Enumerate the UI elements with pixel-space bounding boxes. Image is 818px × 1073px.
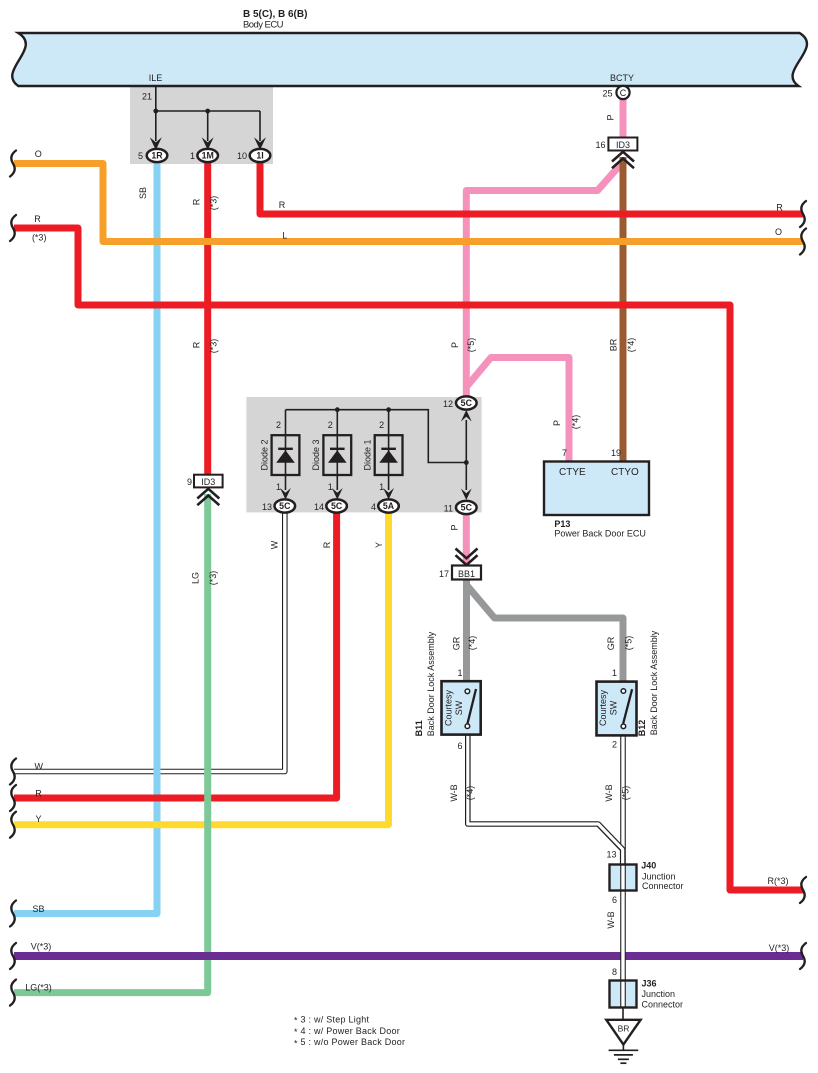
courtesy switch B11 box [442, 681, 481, 734]
label LG3 left [25, 983, 52, 993]
svg-text:ID3: ID3 [201, 477, 215, 487]
label pin 12 [443, 399, 453, 409]
svg-text:9: 9 [187, 477, 192, 487]
svg-text:Diode 1: Diode 1 [363, 439, 373, 470]
svg-text:Connector: Connector [642, 881, 684, 891]
svg-text:2: 2 [379, 420, 384, 430]
svg-text:(*4): (*4) [571, 415, 581, 430]
svg-text:* 3 : w/ Step Light: * 3 : w/ Step Light [294, 1015, 370, 1026]
J40 junction connector border [610, 865, 637, 891]
svg-text:B11: B11 [414, 720, 424, 736]
label SB left [32, 904, 44, 914]
label R rotated low [322, 541, 332, 548]
label net BCTY [610, 73, 634, 83]
break squiggle right V [800, 943, 806, 969]
label pin 17 [439, 569, 449, 579]
svg-text:2: 2 [612, 740, 617, 750]
label O left [35, 149, 42, 159]
svg-text:2: 2 [276, 420, 281, 430]
svg-text:1: 1 [612, 668, 617, 678]
svg-text:1: 1 [379, 482, 384, 492]
label pin 19 [611, 448, 621, 458]
label pin 7 [562, 448, 567, 458]
Body ECU connector band B5(C) B6(B) [12, 33, 807, 86]
svg-text:Courtesy: Courtesy [444, 689, 454, 726]
wire Y from diode pin 4 to left edge [14, 512, 389, 825]
connector box 17 BB1 [452, 566, 481, 580]
svg-text:P: P [606, 114, 616, 120]
break squiggle left W [10, 759, 16, 785]
node dot diode1 top [386, 407, 391, 412]
wire P branch to P13 CTYE pin 7 [466, 358, 569, 464]
svg-text:SB: SB [32, 904, 44, 914]
svg-text:P: P [552, 420, 562, 426]
break squiggle left SB [10, 901, 16, 927]
svg-text:SW: SW [609, 700, 619, 715]
svg-text:CTYE: CTYE [559, 467, 586, 478]
break squiggle left O [10, 151, 16, 177]
svg-text:(*4): (*4) [467, 636, 477, 651]
label Diode 2 [259, 439, 269, 470]
label R 1M upper [191, 196, 218, 211]
wire SB from 1R down and to left edge [14, 160, 157, 914]
courtesy switch B12 box [597, 682, 637, 736]
label pin 1 B11 [457, 668, 462, 678]
junction block top gray [130, 87, 273, 164]
connector box 16 ID3 [608, 138, 637, 151]
svg-text:(*5): (*5) [466, 338, 476, 353]
arrow up into terminal 12 [461, 410, 472, 463]
svg-text:W: W [270, 540, 280, 549]
svg-text:8: 8 [612, 967, 617, 977]
break squiggle left V [10, 943, 16, 969]
svg-text:1R: 1R [151, 151, 163, 161]
arrow into terminal 1I [254, 111, 266, 150]
terminal oval 11 5C [456, 501, 477, 514]
svg-text:Y: Y [35, 814, 41, 824]
svg-text:* 4 : w/ Power Back Door: * 4 : w/ Power Back Door [294, 1026, 400, 1037]
svg-text:21: 21 [142, 92, 152, 102]
label GR *4 [452, 636, 478, 651]
node junction dot at 1M branch [205, 109, 210, 114]
svg-text:(*4): (*4) [626, 338, 636, 353]
svg-text:(*4): (*4) [465, 786, 475, 801]
svg-text:R: R [191, 341, 201, 348]
label pin 14 diode [314, 502, 324, 512]
label W left [34, 761, 43, 771]
svg-text:14: 14 [314, 502, 324, 512]
label pin 10 [237, 151, 247, 161]
svg-text:4: 4 [371, 502, 376, 512]
label J40 [641, 861, 683, 892]
svg-text:W: W [34, 761, 43, 771]
svg-text:W-B: W-B [606, 911, 616, 928]
label Courtesy SW B12 [598, 689, 619, 726]
svg-text:ILE: ILE [149, 73, 163, 83]
terminal oval 1I [250, 149, 271, 162]
break squiggle left R2 [10, 785, 16, 811]
svg-text:1: 1 [328, 482, 333, 492]
wire R from 1I to right edge [260, 160, 803, 214]
label R3 right [767, 876, 788, 886]
label diode pins 2 [276, 420, 384, 430]
svg-text:Diode 2: Diode 2 [259, 439, 269, 470]
svg-text:10: 10 [237, 151, 247, 161]
svg-text:5C: 5C [461, 503, 473, 513]
label pin 9 [187, 477, 192, 487]
label R left with *3 [32, 214, 47, 243]
wire W-B from B11 pin 6 joining B12 wire [468, 736, 623, 865]
svg-text:L: L [282, 231, 287, 241]
terminal oval 4 5A [378, 499, 399, 512]
svg-text:Junction: Junction [642, 871, 676, 881]
svg-text:R: R [776, 203, 783, 213]
label pin 1 of 1M [190, 151, 195, 161]
J36 junction connector border [610, 981, 637, 1008]
svg-text:(*3): (*3) [32, 233, 47, 243]
label pin 16 [595, 140, 605, 150]
break squiggle right R [800, 201, 806, 227]
terminal oval 13 5C [275, 499, 296, 512]
svg-text:Back Door Lock Assembly: Back Door Lock Assembly [649, 630, 659, 735]
svg-text:1M: 1M [202, 151, 214, 161]
label pin 4 diode [371, 502, 376, 512]
svg-text:11: 11 [444, 504, 453, 514]
P13 Power Back Door ECU box [544, 462, 649, 516]
label pin 2 B12 [612, 740, 617, 750]
label diode pins 1 [276, 482, 384, 492]
svg-text:J40: J40 [641, 861, 656, 871]
svg-text:V(*3): V(*3) [31, 941, 52, 951]
terminal oval 14 5C [326, 499, 347, 512]
label Diode 3 [311, 439, 321, 470]
label pin 1 B12 [612, 668, 617, 678]
wire W (white) from diode pin 13 to left edge [14, 511, 285, 772]
svg-text:W-B: W-B [449, 784, 459, 801]
chevron down above BB1 [456, 549, 478, 566]
wire P from diode pin 11 to BB1 [463, 510, 470, 564]
label P *4 branch [552, 415, 581, 430]
svg-text:Connector: Connector [642, 999, 684, 1009]
label pin 8 J36 [612, 967, 617, 977]
label Diode 1 [363, 439, 373, 470]
wire O / L from left edge to right edge [14, 164, 803, 242]
wire P from ID3 to diode pin 12 [466, 164, 621, 405]
label pin 6 J40 [612, 895, 617, 905]
svg-text:BR: BR [618, 1024, 630, 1034]
wire LG from ID3 connector down to left edge [14, 494, 208, 993]
svg-text:(*3): (*3) [209, 339, 219, 354]
label legend notes [294, 1015, 405, 1049]
label W rotated [270, 540, 280, 549]
label Courtesy SW B11 [444, 689, 465, 726]
terminal oval 1M [197, 149, 218, 162]
label B12 [637, 720, 647, 737]
node dot at 12-11 link [464, 460, 469, 465]
label P above BB1 [450, 524, 460, 530]
diode D1 wire and arrow into 4 [383, 410, 394, 500]
arrow down into terminal 11 [461, 463, 472, 501]
label L orange [282, 231, 287, 241]
switch B11 contacts [465, 689, 470, 729]
label O right end [775, 227, 782, 237]
label Y left [35, 814, 41, 824]
diode block gray [246, 397, 481, 512]
switch B11 blade [468, 689, 477, 724]
diode 1 body [375, 435, 403, 475]
svg-text:O: O [35, 149, 42, 159]
svg-text:P13: P13 [554, 519, 570, 529]
svg-text:J36: J36 [642, 979, 657, 989]
svg-text:P: P [450, 524, 460, 530]
label B11 [414, 720, 424, 736]
J36 junction connector fill [610, 981, 637, 1008]
svg-text:Body ECU: Body ECU [243, 20, 284, 31]
node dot diode3 top [335, 407, 340, 412]
label Back Door Lock Assembly B12 [649, 630, 659, 735]
label pin 11 [444, 504, 453, 514]
svg-text:BCTY: BCTY [610, 73, 634, 83]
svg-text:GR: GR [452, 636, 462, 650]
break squiggle left Y [10, 812, 16, 838]
wire W-B from B12 pin 2 through J40 and J36 to ground [620, 736, 626, 1021]
label pin 25 [602, 89, 612, 99]
diode D3 wire and arrow into 14 [332, 410, 343, 500]
svg-text:BB1: BB1 [458, 569, 475, 579]
svg-text:LG(*3): LG(*3) [25, 983, 52, 993]
svg-text:BR: BR [609, 338, 619, 351]
label R right end [776, 203, 783, 213]
svg-text:R: R [322, 541, 332, 548]
label R at 1I corner [279, 200, 286, 210]
svg-text:Junction: Junction [642, 989, 676, 999]
break squiggle left R [10, 215, 16, 241]
svg-text:19: 19 [611, 448, 621, 458]
arrow into terminal 1M [202, 111, 214, 150]
chevron up below 16 ID3 [612, 152, 634, 168]
svg-text:SW: SW [454, 700, 464, 715]
svg-text:1: 1 [190, 151, 195, 161]
svg-text:16: 16 [595, 140, 605, 150]
svg-text:Diode 3: Diode 3 [311, 439, 321, 470]
svg-text:LG: LG [191, 572, 201, 584]
terminal oval 1R [147, 149, 168, 162]
label BR *4 brown [609, 338, 637, 353]
svg-text:* 5 : w/o Power Back Door: * 5 : w/o Power Back Door [294, 1037, 405, 1048]
wire R from 1M to ID3 connector [204, 160, 211, 476]
svg-text:P: P [450, 342, 460, 348]
svg-text:5C: 5C [279, 501, 291, 511]
svg-text:(*3): (*3) [208, 571, 218, 586]
wire pin21 drop inside junction block [156, 86, 260, 111]
svg-text:Power Back Door ECU: Power Back Door ECU [554, 529, 646, 539]
svg-text:GR: GR [606, 636, 616, 650]
terminal oval 12 5C [456, 396, 477, 409]
label R 1M lower [191, 339, 218, 354]
diode 2 body [272, 435, 300, 475]
wire R(*3) long from left edge to bottom right [14, 228, 803, 890]
svg-text:12: 12 [443, 399, 453, 409]
label W-B *4 [449, 784, 475, 801]
svg-text:1I: 1I [256, 151, 263, 161]
label pin 6 B11 [457, 741, 462, 751]
svg-text:25: 25 [602, 89, 612, 99]
svg-text:6: 6 [457, 741, 462, 751]
svg-text:R(*3): R(*3) [767, 876, 788, 886]
wire P from BCTY pin 25 to ID3 [620, 98, 627, 139]
break squiggle left LG [10, 980, 16, 1006]
svg-text:B12: B12 [637, 720, 647, 737]
svg-text:C: C [620, 88, 627, 98]
svg-text:CTYO: CTYO [611, 467, 639, 478]
svg-text:R: R [191, 198, 201, 205]
label pin 5 [138, 151, 143, 161]
svg-text:(*5): (*5) [621, 786, 631, 801]
svg-text:5: 5 [138, 151, 143, 161]
arrow into terminal 1R [150, 111, 162, 150]
switch B12 contacts [621, 689, 626, 729]
label pin 13 J40 [606, 850, 616, 860]
label R left low [35, 789, 42, 799]
label LG *3 green wire [191, 571, 219, 586]
diode D2 wire and arrow into 13 [280, 410, 291, 500]
svg-text:13: 13 [606, 850, 616, 860]
label title B5C B6B [243, 9, 307, 31]
label SB rotated [138, 187, 148, 199]
label pin 13 diode [262, 502, 272, 512]
wire R from diode pin 14 to left edge [14, 512, 337, 798]
svg-text:B 5(C), B 6(B): B 5(C), B 6(B) [243, 9, 307, 20]
svg-text:SB: SB [138, 187, 148, 199]
wire BR from ID3 to P13 CTYO pin 19 [620, 157, 627, 463]
label pin 21 [142, 92, 152, 102]
break squiggle right O [800, 229, 806, 255]
diode 3 body [323, 435, 351, 475]
svg-text:R: R [34, 214, 41, 224]
svg-text:Y: Y [374, 542, 384, 548]
ground symbol BR [606, 1020, 640, 1063]
label P top [606, 114, 616, 120]
svg-text:R: R [35, 789, 42, 799]
svg-text:ID3: ID3 [616, 140, 630, 150]
wire V(*3) purple across bottom [14, 952, 803, 960]
svg-text:1: 1 [276, 482, 281, 492]
wire GR from BB1 to courtesy switches [467, 579, 624, 682]
terminal circle C at BCTY pin 25 [616, 86, 629, 99]
svg-text:1: 1 [457, 668, 462, 678]
switch B12 blade [623, 689, 632, 723]
svg-text:6: 6 [612, 895, 617, 905]
label GR *5 [606, 636, 634, 651]
svg-text:Back Door Lock Assembly: Back Door Lock Assembly [426, 631, 436, 736]
label P *5 pink vertical [450, 338, 476, 353]
svg-text:(*5): (*5) [624, 636, 634, 651]
svg-text:Courtesy: Courtesy [598, 689, 608, 726]
svg-text:2: 2 [328, 420, 333, 430]
label Y rotated [374, 542, 384, 548]
svg-text:(*3): (*3) [209, 196, 219, 211]
label P13 [554, 519, 646, 539]
svg-text:5A: 5A [383, 501, 395, 511]
svg-text:17: 17 [439, 569, 449, 579]
label V3 left [31, 941, 52, 951]
svg-text:W-B: W-B [604, 784, 614, 801]
node junction dot at 1R branch [153, 109, 158, 114]
svg-text:5C: 5C [461, 398, 473, 408]
label Back Door Lock Assembly B11 [426, 631, 436, 736]
label W-B mid [606, 911, 616, 928]
label J36 [642, 979, 684, 1010]
label W-B *5 [604, 784, 631, 801]
svg-text:V(*3): V(*3) [769, 943, 790, 953]
svg-text:5C: 5C [331, 501, 343, 511]
chevron up below 9 ID3 [197, 489, 219, 505]
svg-text:R: R [279, 200, 286, 210]
svg-text:O: O [775, 227, 782, 237]
diode block top line [286, 410, 467, 463]
break squiggle right R3 [800, 877, 806, 903]
J40 junction connector fill [610, 865, 637, 891]
svg-text:13: 13 [262, 502, 272, 512]
label net ILE [149, 73, 163, 83]
label V3 right [769, 943, 790, 953]
connector box 9 ID3 [194, 475, 223, 488]
svg-text:7: 7 [562, 448, 567, 458]
